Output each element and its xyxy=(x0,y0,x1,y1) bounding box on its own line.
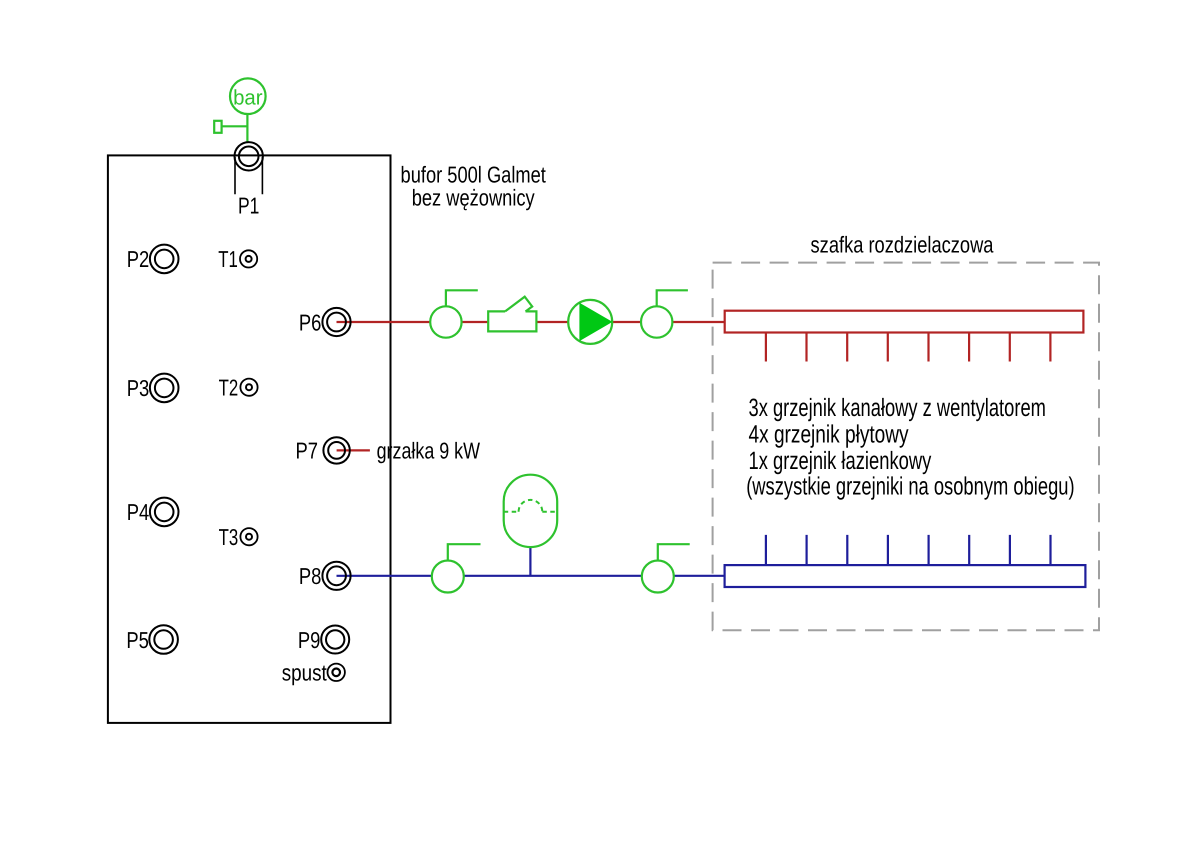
svg-text:(wszystkie grzejniki na osobny: (wszystkie grzejniki na osobnym obiegu) xyxy=(746,472,1074,500)
svg-text:3x grzejnik kanałowy z wentyla: 3x grzejnik kanałowy z wentylatorem xyxy=(749,394,1046,422)
cabinet dashed box xyxy=(713,263,1099,631)
port P7 xyxy=(295,437,349,464)
radiator list text xyxy=(746,394,1074,500)
supply manifold (red) xyxy=(725,311,1084,362)
svg-text:spust: spust xyxy=(282,660,328,686)
svg-text:T2: T2 xyxy=(219,375,239,401)
port P4 xyxy=(127,498,179,527)
supply pipe (red) xyxy=(337,321,725,323)
gauge stem wire xyxy=(246,114,248,142)
svg-text:4x grzejnik płytowy: 4x grzejnik płytowy xyxy=(749,420,909,448)
heater wire (red) xyxy=(337,449,370,451)
svg-text:bar: bar xyxy=(233,87,262,110)
svg-text:P4: P4 xyxy=(127,499,150,525)
drain port spust xyxy=(282,660,345,686)
buffer tank outline xyxy=(108,155,391,723)
port P3 xyxy=(127,374,179,403)
return manifold (blue) xyxy=(725,535,1086,587)
ball valve V3 xyxy=(432,544,481,592)
svg-text:1x grzejnik łazienkowy: 1x grzejnik łazienkowy xyxy=(749,447,932,475)
gauge valve square xyxy=(214,121,221,133)
port P5 xyxy=(126,625,178,654)
port P1 xyxy=(235,142,263,218)
svg-text:P8: P8 xyxy=(299,563,322,589)
svg-text:P5: P5 xyxy=(126,627,149,653)
port P8 xyxy=(299,562,351,590)
svg-text:P3: P3 xyxy=(127,375,150,401)
ball valve V2 xyxy=(641,290,688,337)
sensor T1 xyxy=(218,246,257,272)
port P2 xyxy=(127,245,179,274)
ball valve V4 xyxy=(642,544,690,592)
svg-text:T1: T1 xyxy=(218,246,238,272)
svg-text:P2: P2 xyxy=(127,246,150,272)
svg-text:bez wężownicy: bez wężownicy xyxy=(412,184,535,210)
sensor T2 xyxy=(219,375,258,401)
expansion vessel xyxy=(504,475,558,576)
svg-text:P1: P1 xyxy=(238,192,259,218)
svg-text:P9: P9 xyxy=(298,627,321,653)
port P6 xyxy=(299,308,351,336)
svg-text:grzałka 9 kW: grzałka 9 kW xyxy=(377,438,481,464)
svg-text:szafka rozdzielaczowa: szafka rozdzielaczowa xyxy=(811,232,994,258)
return pipe (blue) xyxy=(337,575,725,577)
svg-text:P7: P7 xyxy=(295,438,318,464)
check valve xyxy=(488,297,536,332)
pressure gauge manometer (bar) xyxy=(230,78,266,114)
pump U1 xyxy=(568,300,612,344)
svg-text:T3: T3 xyxy=(219,524,239,550)
ball valve V1 xyxy=(430,290,478,337)
gauge branch wire xyxy=(222,125,248,127)
bufor label xyxy=(401,162,547,211)
svg-text:P6: P6 xyxy=(299,309,322,335)
sensor T3 xyxy=(219,524,258,550)
port P9 xyxy=(298,626,349,654)
